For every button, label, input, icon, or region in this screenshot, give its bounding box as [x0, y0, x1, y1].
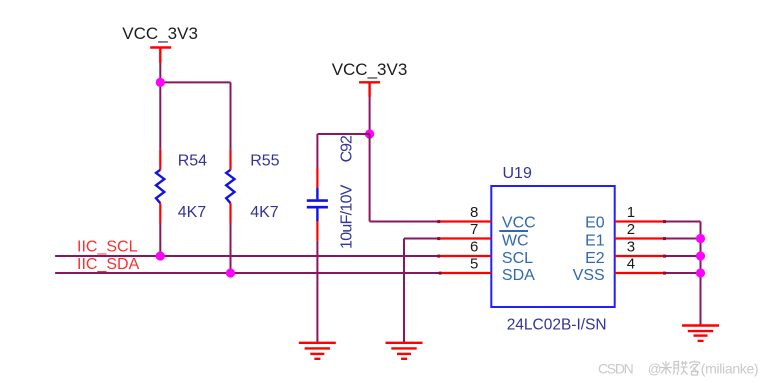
svg-text:4K7: 4K7 [250, 204, 279, 221]
junction dot bus/pin3 [696, 251, 705, 260]
watermark CJK glyph 客 (approximated) [690, 361, 700, 376]
resistor R54 [156, 149, 164, 223]
wire junction A to R55 top (horizontal) [159, 81, 230, 83]
svg-text:SCL: SCL [502, 250, 533, 267]
wire pin2 to bus [664, 238, 700, 240]
pin hot-end dots left [437, 220, 442, 275]
svg-text:10uF/10V: 10uF/10V [339, 184, 356, 249]
svg-text:3: 3 [627, 238, 635, 255]
capacitor C92 [307, 134, 328, 241]
svg-text:R55: R55 [250, 153, 279, 170]
junction dot bus/pin2 [696, 234, 705, 243]
ground symbol (under C92) [299, 343, 336, 359]
junction dot SDA/R55 [226, 268, 235, 277]
wire IIC_SDA net [55, 272, 440, 274]
svg-text:IIC_SCL: IIC_SCL [77, 239, 138, 256]
svg-text:VCC_3V3: VCC_3V3 [122, 24, 198, 43]
pin hot-end dots right [663, 220, 666, 275]
junction B dot [365, 129, 374, 138]
svg-text:E0: E0 [585, 215, 605, 232]
watermark CJK glyph 联 (approximated) [673, 361, 688, 375]
svg-text:WC: WC [502, 233, 529, 250]
wire pin4 to bus [664, 272, 700, 274]
svg-text:VCC: VCC [502, 215, 536, 232]
svg-text:U19: U19 [503, 165, 532, 182]
pin 3 stub (E2) [615, 255, 665, 257]
svg-text:E2: E2 [585, 250, 605, 267]
watermark CJK glyph 米 (approximated) [660, 361, 672, 375]
pin 6 stub (SCL) [439, 255, 492, 257]
svg-text:VSS: VSS [573, 267, 605, 284]
svg-text:C92: C92 [339, 135, 356, 162]
wire junction B left to capacitor C92 [317, 133, 369, 135]
wire down to R54 [159, 82, 161, 149]
pin 8 stub (VCC) [439, 220, 492, 222]
svg-text:1: 1 [627, 204, 635, 221]
junction dot bus/pin4 [696, 268, 705, 277]
wire WC pin 7 to ground (vertical) [403, 239, 405, 343]
ground symbol (right bus) [682, 326, 719, 341]
svg-text:6: 6 [470, 238, 478, 255]
pin 1 stub (E0) [615, 220, 665, 222]
svg-text:(milianke): (milianke) [701, 361, 758, 377]
wire power2 down to junction B [369, 97, 371, 134]
wire R55 bottom to SDA net [230, 223, 232, 273]
pin 4 stub (VSS) [615, 272, 665, 274]
wire pin1 to bus [664, 221, 700, 223]
WC overline (VCC underline bar) [499, 230, 528, 232]
wire WC pin 7 horizontal [404, 238, 439, 240]
svg-text:24LC02B-I/SN: 24LC02B-I/SN [507, 316, 607, 333]
pin 5 stub (SDA) [440, 272, 491, 274]
svg-text:2: 2 [627, 221, 635, 238]
junction A dot [156, 78, 165, 87]
wire right bus vertical [700, 222, 702, 326]
svg-text:IIC_SDA: IIC_SDA [77, 256, 140, 273]
pin 2 stub (E1) [615, 237, 665, 239]
svg-text:SDA: SDA [502, 267, 535, 284]
svg-text:7: 7 [470, 221, 478, 238]
svg-text:VCC_3V3: VCC_3V3 [332, 60, 408, 79]
wire R54 bottom to SCL net [159, 223, 161, 256]
svg-text:4K7: 4K7 [178, 204, 207, 221]
svg-text:E1: E1 [585, 233, 605, 250]
resistor R55 [226, 149, 234, 223]
svg-text:8: 8 [470, 204, 478, 221]
op-amp U19 box (IC 24LC02B) [491, 186, 614, 307]
svg-text:4: 4 [627, 255, 635, 272]
wire capacitor bottom to ground [316, 241, 318, 343]
wire pin3 to bus [664, 255, 700, 257]
junction dot SCL/R54 [156, 251, 165, 260]
wire down to R55 [230, 82, 232, 149]
svg-text:CSDN: CSDN [598, 361, 633, 377]
svg-text:R54: R54 [178, 153, 207, 170]
svg-text:5: 5 [470, 255, 478, 272]
power VCC_3V3 bar symbol (left) [150, 48, 171, 64]
power VCC_3V3 bar symbol (middle) [359, 82, 380, 97]
wire power1 to junction A [159, 63, 161, 82]
svg-text:@: @ [648, 362, 662, 377]
wire junction B down then right to pin 8 [370, 134, 439, 222]
pin 7 stub (WC) [439, 237, 492, 239]
wire IIC_SCL net [55, 255, 438, 257]
ground symbol (WC) [386, 343, 423, 359]
